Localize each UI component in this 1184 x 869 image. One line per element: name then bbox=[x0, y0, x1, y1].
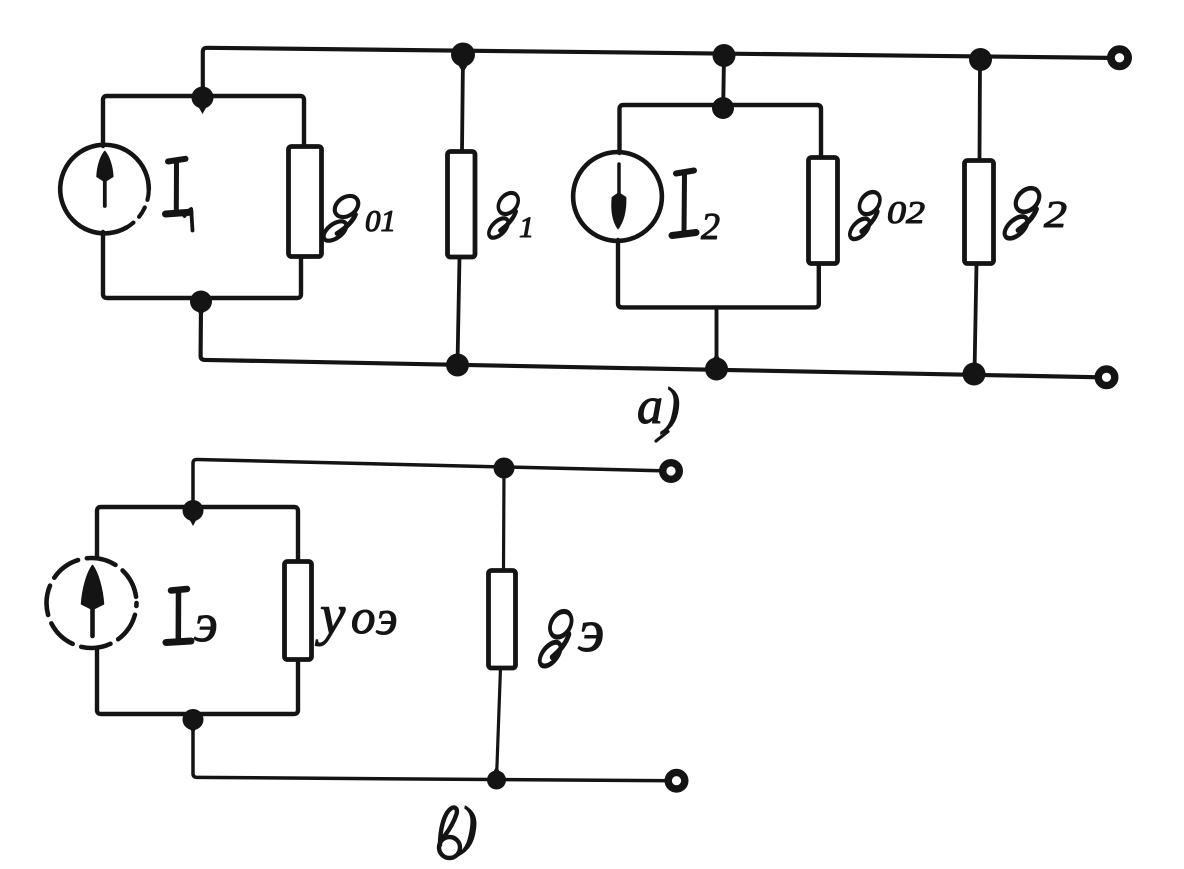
wire top bus (b) bbox=[193, 459, 671, 509]
wire bottom bus (b) bbox=[193, 716, 677, 781]
wire loop I1 bottom bbox=[103, 232, 301, 298]
label I2 bbox=[672, 171, 696, 236]
resistor g02 bbox=[809, 158, 838, 264]
svg-text:a): a) bbox=[637, 378, 680, 435]
wire loop Ie bottom bbox=[97, 648, 298, 714]
label b) bbox=[439, 807, 460, 858]
svg-text:э: э bbox=[578, 598, 604, 664]
svg-text:): ) bbox=[456, 796, 478, 858]
conductance g2 branch wire top bbox=[978, 61, 982, 160]
svg-text:2: 2 bbox=[701, 206, 720, 248]
label g01 bbox=[320, 192, 362, 245]
svg-text:у: у bbox=[315, 584, 346, 647]
svg-text:01: 01 bbox=[365, 203, 396, 238]
label g02 bbox=[847, 188, 884, 244]
wire dropper loop I2 to bottom bus bbox=[715, 308, 719, 368]
current source I2 bbox=[573, 152, 662, 241]
conductance g1 branch wire top bbox=[462, 56, 463, 151]
svg-text:2: 2 bbox=[1044, 194, 1067, 236]
resistor g1 bbox=[448, 152, 476, 258]
resistor g01 bbox=[289, 147, 322, 257]
svg-text:о: о bbox=[351, 589, 376, 644]
wire loop I2 bottom bbox=[618, 240, 819, 307]
wire loop I1 top bbox=[103, 96, 304, 147]
conductance ge branch wire bottom bbox=[497, 668, 501, 779]
conductance g2 branch wire bottom bbox=[975, 264, 977, 373]
svg-text:э: э bbox=[194, 593, 218, 653]
wire bottom bus (a) bbox=[201, 303, 1107, 377]
terminal (b) bottom right bbox=[668, 772, 685, 789]
junction node dots circuit a bbox=[190, 43, 992, 386]
current source Ie bbox=[47, 558, 137, 648]
resistor g2 bbox=[965, 161, 994, 264]
resistor y0e bbox=[285, 562, 312, 660]
resistor ge bbox=[489, 571, 516, 669]
svg-text:02: 02 bbox=[887, 194, 925, 230]
conductance ge branch wire top bbox=[502, 470, 506, 570]
label I1 bbox=[166, 159, 191, 214]
terminal (a) top right bbox=[1111, 49, 1128, 66]
svg-text:э: э bbox=[376, 590, 398, 645]
wire riser I2 loop to top bus bbox=[721, 57, 726, 106]
junction node dots circuit b bbox=[183, 458, 515, 790]
stray pen mark bbox=[656, 432, 668, 442]
wire top bus (a) bbox=[203, 48, 1119, 99]
label g2 bbox=[1001, 183, 1043, 242]
terminal (b) top right bbox=[663, 463, 680, 480]
label g1 bbox=[486, 189, 522, 242]
conductance g1 branch wire bottom bbox=[458, 257, 460, 364]
label Ie bbox=[166, 589, 191, 643]
wire loop I2 top bbox=[620, 105, 822, 158]
terminal (a) bottom right bbox=[1098, 369, 1115, 386]
label ge bbox=[537, 606, 576, 671]
current source I1 bbox=[60, 145, 149, 234]
svg-text:1: 1 bbox=[519, 211, 534, 244]
wire loop Ie top bbox=[97, 507, 298, 561]
